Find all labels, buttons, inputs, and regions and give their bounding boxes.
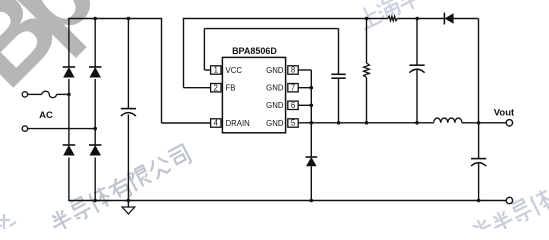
wire C2 bottom to GND bus [338, 78, 340, 123]
svg-text:1: 1 [214, 66, 218, 75]
wire pin 6 stub [298, 104, 311, 106]
AC terminal top [22, 92, 27, 97]
diode D5 (output rectifier) [443, 13, 445, 25]
wire freewheel diode to bottom rail [310, 166, 312, 200]
watermark text row top: 上海… [356, 0, 423, 29]
svg-text:FB: FB [226, 84, 236, 93]
wire output cap column [478, 123, 480, 159]
pin 8 (GND) [288, 66, 298, 74]
wire pin 7 stub [298, 87, 311, 89]
op-amp U1 BPA8506D body [222, 57, 285, 132]
pin 4 (DRAIN) [211, 119, 221, 127]
resistor R2 (FB upper divider) [388, 16, 398, 21]
wire bridge column A [68, 18, 70, 67]
wire output riser (diode cathode down to Vout line) [478, 19, 480, 123]
return terminal bottom-right [506, 197, 512, 203]
svg-text:GND: GND [266, 66, 284, 75]
svg-text:2: 2 [214, 83, 218, 92]
svg-text:8: 8 [291, 66, 295, 75]
AC terminal bottom [22, 126, 27, 131]
svg-text:VCC: VCC [226, 66, 243, 75]
svg-text:AC: AC [39, 110, 53, 121]
capacitor C4 (output, polarized) [471, 158, 486, 160]
pin 2 (FB) [211, 84, 221, 92]
capacitor C3 (polarized) [409, 64, 424, 66]
diode D1 (bridge, column A top) [63, 66, 76, 68]
inductor L1 [434, 118, 462, 123]
resistor R1 (FB lower divider) [364, 63, 370, 78]
capacitor C2 (VCC decoupling) [331, 73, 345, 75]
wire DRAIN riser [161, 18, 163, 123]
svg-text:GND: GND [266, 101, 284, 110]
pin 6 (GND) [288, 101, 298, 109]
wire top rail right (FB net) [183, 18, 388, 20]
wire top rail left (bridge + to DRAIN riser) [69, 18, 162, 20]
watermark text row middle: 半导体有限公司 [47, 144, 191, 234]
wire bottom rail [69, 200, 507, 202]
watermark fragment bottom-left corner [0, 214, 16, 229]
wire bridge column B [94, 19, 96, 68]
wire FB to pin 2 [184, 87, 211, 89]
pin 1 (VCC) [211, 66, 221, 74]
diode D4 (bridge, column B bottom) [89, 144, 102, 146]
wire DRAIN to pin 4 [162, 122, 211, 124]
wire AC live: terminal to fuse to bridge [28, 93, 42, 95]
svg-text:BPA8506D: BPA8506D [232, 46, 277, 56]
wire VCC loop: pin1 left, up, right, down to C2 [204, 69, 210, 71]
svg-text:4: 4 [214, 119, 219, 128]
svg-text:DRAIN: DRAIN [226, 119, 250, 128]
svg-text:Vout: Vout [494, 108, 515, 119]
capacitor C1 (bulk, polarized) [121, 108, 136, 110]
diode D3 (bridge, column A bottom) [63, 144, 76, 146]
fuse F1 [42, 91, 57, 97]
svg-text:7: 7 [291, 83, 295, 92]
diode D6 (freewheel) [306, 156, 318, 158]
wire resistor R1 column [366, 19, 368, 64]
watermark BPS logo (top-left) [0, 0, 149, 110]
wire AC neutral [28, 128, 96, 130]
wire GND bus / output line [298, 122, 434, 124]
ground symbol [127, 201, 129, 208]
diode D2 (bridge, column B top) [89, 66, 102, 68]
pin 7 (GND) [288, 84, 298, 92]
watermark text row bottom-right: 米半导体 [469, 188, 549, 240]
svg-text:GND: GND [266, 84, 284, 93]
svg-text:GND: GND [266, 119, 284, 128]
wire bulk cap column [127, 19, 129, 109]
svg-text:6: 6 [291, 101, 295, 110]
Vout terminal [506, 120, 512, 126]
wire cap C3 column [416, 19, 418, 66]
pin 5 (GND) [288, 119, 298, 127]
wire FB loop vertical [183, 19, 185, 88]
wire pin 8 to GND bus vertical [298, 69, 311, 71]
svg-text:5: 5 [291, 119, 296, 128]
